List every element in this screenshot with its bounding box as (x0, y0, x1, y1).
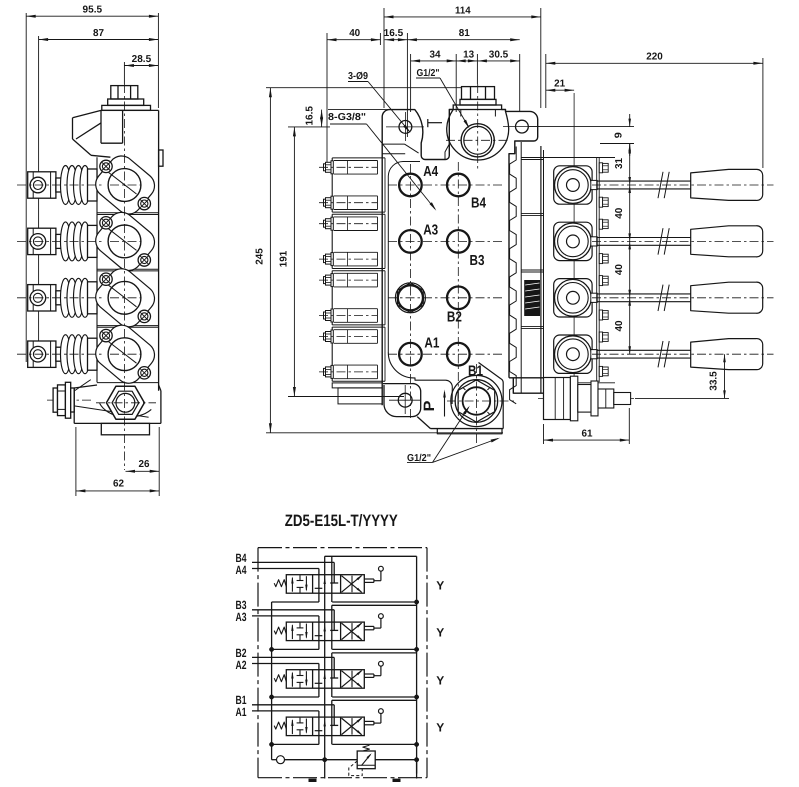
junction dot return module 2 (269, 695, 273, 699)
lever 4 centerline (592, 184, 774, 186)
section 3 stem (56, 234, 63, 248)
cell arrows module 2 (291, 673, 293, 687)
section 1 port flange (90, 320, 159, 389)
lever 3 break marks (658, 228, 663, 254)
valve module 3 body (286, 622, 364, 641)
svg-text:33.5: 33.5 (709, 371, 720, 391)
port A1 (399, 343, 422, 366)
wire loop module 2 (331, 653, 333, 697)
svg-text:40: 40 (614, 320, 625, 331)
lever 1 pivot housing (554, 335, 592, 373)
spool bore (334, 308, 378, 310)
svg-text:ZD5-E15L-T/YYYY: ZD5-E15L-T/YYYY (285, 512, 398, 530)
spring module 2 (274, 675, 286, 682)
check valve (272, 759, 277, 761)
wire loop module 4 (331, 556, 333, 602)
valve module 1 body (286, 717, 364, 736)
section 1 cap plate (88, 338, 98, 370)
section 3 port flange (90, 207, 159, 276)
main body outline (front view) (382, 110, 543, 406)
svg-text:A4: A4 (236, 563, 247, 577)
svg-text:21: 21 (554, 79, 565, 90)
lever 2 rod (591, 293, 597, 302)
port B2 (447, 287, 470, 310)
svg-text:A1: A1 (424, 335, 439, 351)
spool centerline (319, 166, 377, 168)
junction dot P at check line (323, 758, 327, 762)
valve body outline (left view) (101, 109, 159, 111)
svg-text:26: 26 (139, 459, 150, 470)
lever 3 pivot housing (554, 222, 592, 260)
inlet fitting (left view bottom left) (47, 399, 91, 401)
dimension 62 (left view) (75, 427, 77, 496)
bottom-left mounting ear (383, 384, 421, 417)
section 4 port circle (108, 169, 141, 202)
spool bore (334, 216, 378, 218)
front view of valve (254, 5, 773, 464)
outlet fitting (bottom right) (538, 397, 634, 399)
spool cap bolt (row 1) (331, 365, 333, 378)
section 3 centerline (17, 240, 102, 242)
spool centerline (319, 371, 377, 373)
section 1 clevis (28, 341, 56, 367)
detent X cell module 3 (342, 623, 362, 640)
P boss shoulder (479, 363, 504, 429)
lever 3 rod (591, 237, 597, 246)
spool cap bolt (row 2) (331, 309, 333, 322)
return line (left) (271, 602, 273, 760)
junction dot module 1 (414, 742, 418, 746)
spool bore (334, 364, 378, 366)
lever actuator module 2 (364, 673, 374, 675)
svg-text:A2: A2 (236, 658, 247, 672)
svg-text:B1: B1 (468, 364, 483, 380)
junction dot module 4 (414, 600, 418, 604)
bottom end cap of stack (332, 383, 382, 388)
spool cap bolt (row 4) (331, 161, 333, 174)
svg-text:30.5: 30.5 (489, 49, 509, 60)
junction dot relief-tank (414, 758, 418, 762)
section 2 port circle (108, 281, 141, 314)
dimension 34 (410, 54, 412, 112)
relief valve cap (front view) (462, 87, 495, 100)
junction dot module 2 (414, 695, 418, 699)
junction dot module 3 (414, 647, 418, 651)
lever 1 break marks (658, 341, 663, 367)
svg-text:40: 40 (614, 207, 625, 218)
spool centerline (319, 223, 377, 225)
lever 4 break marks (658, 172, 663, 198)
dimension 61 (543, 424, 545, 444)
lever 1 handle grip (691, 339, 763, 370)
svg-text:13: 13 (463, 49, 474, 60)
P port (bottom boss) (451, 375, 502, 426)
port B1 (447, 343, 470, 366)
bottom edge and step (front view) (431, 428, 504, 430)
spool cap bolt (row 1) (331, 330, 333, 343)
spool bore (334, 251, 378, 253)
cell arrows module 1 (291, 720, 293, 734)
dimension 87 (38, 36, 40, 362)
section joints (left view) (97, 212, 159, 214)
svg-text:B2: B2 (447, 309, 462, 325)
svg-text:Y: Y (436, 721, 444, 735)
dimension 16.5 (vertical) (328, 109, 391, 111)
svg-text:40: 40 (614, 264, 625, 275)
lever 2 break marks (658, 285, 663, 311)
dimension 13 (476, 54, 478, 84)
section 2 bellows boot (61, 278, 71, 317)
spool cap bolt (row 3) (331, 217, 333, 230)
svg-text:A4: A4 (423, 164, 438, 180)
lever 1 centerline (592, 353, 774, 355)
P supply line (324, 556, 326, 759)
section 3 flange bolts (100, 217, 112, 229)
cell arrows module 3 (291, 625, 293, 639)
section 2 clevis (28, 285, 56, 311)
detent X cell module 2 (342, 671, 362, 688)
svg-text:40: 40 (349, 28, 360, 39)
svg-text:31: 31 (614, 158, 625, 169)
section 4 clevis (28, 172, 56, 198)
section plate 3 (331, 214, 333, 268)
section 4 centerline (17, 184, 102, 186)
detent X cell module 4 (342, 576, 362, 593)
port A3 (399, 230, 422, 253)
svg-text:16.5: 16.5 (384, 28, 404, 39)
bottom block (left view) (73, 388, 75, 423)
neutral cell marks module 3 (315, 635, 323, 637)
svg-text:87: 87 (93, 28, 104, 39)
lever 3 handle grip (691, 226, 763, 257)
section 1 bellows boot (61, 335, 71, 374)
section 2 flange bolts (100, 273, 112, 285)
lever 4 bracket bolts (599, 163, 602, 173)
svg-text:A1: A1 (236, 705, 247, 719)
section 3 port circle (108, 225, 141, 258)
lever 1 bracket bolts (599, 332, 602, 342)
bottom mounting hole (398, 393, 412, 407)
lever 2 centerline (592, 297, 774, 299)
spool centerline (319, 202, 377, 204)
section 2 cap plate (88, 282, 98, 314)
row 3 centerline (388, 240, 504, 242)
section 3 clevis (28, 228, 56, 254)
dimension 245 (left of front view) (266, 87, 462, 89)
valve module 2 body (286, 670, 364, 689)
inner face plate boundary (387, 176, 389, 352)
dimension 33.5 (635, 397, 729, 399)
svg-text:114: 114 (455, 5, 471, 16)
svg-text:81: 81 (459, 28, 470, 39)
lever 4 handle grip (691, 169, 763, 200)
top mounting hole right (516, 120, 529, 133)
tank line (416, 556, 418, 773)
row 4 centerline (388, 184, 504, 186)
lever pivot center vertical (573, 93, 575, 415)
section 4 cap plate (88, 169, 98, 201)
spring module 4 (274, 580, 286, 587)
neutral cell marks module 2 (315, 682, 323, 684)
G1/2 top port (461, 124, 494, 157)
bracket top/bottom plates (544, 157, 616, 159)
section 1 stem (56, 347, 63, 361)
spool centerline (319, 336, 377, 338)
lever 4 rod (591, 180, 597, 189)
svg-text:Y: Y (436, 673, 444, 687)
cell arrows module 4 (291, 578, 293, 592)
svg-text:P: P (421, 401, 438, 412)
section 4 bellows boot (61, 166, 71, 205)
port B4 (447, 174, 470, 197)
svg-text:61: 61 (582, 428, 593, 439)
svg-text:B3: B3 (470, 253, 485, 269)
spring module 3 (274, 627, 286, 634)
lever 2 bracket bolts (599, 276, 602, 286)
dimension 16.5 (top) (406, 33, 408, 137)
top mounting hole left (399, 121, 412, 134)
section 3 cap plate (88, 225, 98, 257)
wire loop module 1 (331, 700, 333, 744)
dimension 81 (407, 39, 519, 41)
relief valve cap (left view) (111, 86, 138, 99)
section 4 stem (56, 178, 63, 192)
carry-over hex plug (row 2, A column) (395, 283, 425, 313)
svg-text:B4: B4 (471, 196, 486, 212)
lever 3 bracket bolts (599, 219, 602, 229)
inner face corner arcs (388, 162, 403, 177)
port B3 (447, 230, 470, 253)
spool bore (334, 195, 378, 197)
relief valve (357, 751, 375, 769)
junction dot return module 3 (269, 647, 273, 651)
spool centerline (319, 279, 377, 281)
svg-text:245: 245 (254, 248, 265, 265)
svg-text:220: 220 (646, 52, 663, 63)
hydraulic circuit schematic (236, 512, 445, 782)
svg-text:Y: Y (436, 578, 444, 592)
section plate 4 (331, 158, 333, 212)
svg-text:62: 62 (113, 479, 124, 490)
column centerlines (409, 164, 411, 420)
dimension 191 (288, 126, 330, 128)
valve module 4 body (286, 575, 364, 594)
svg-text:28.5: 28.5 (132, 54, 152, 65)
dimension 21 (546, 89, 574, 91)
lever 4 pivot housing (554, 166, 592, 204)
port A4 (399, 174, 422, 197)
dimension 220 (545, 54, 547, 108)
centerline bottom plug (96, 402, 156, 404)
section 1 centerline (17, 353, 102, 355)
P and T exit stubs (324, 760, 326, 779)
dimension 114 (383, 8, 385, 108)
wire loop module 3 (331, 605, 333, 649)
dimension 30.5 (519, 54, 521, 112)
P flow arrow (444, 392, 446, 417)
junction dot return module 1 (269, 742, 273, 746)
section 1 port circle (108, 338, 141, 371)
T port marker (427, 119, 429, 127)
row 2 centerline (388, 297, 504, 299)
svg-text:A3: A3 (423, 223, 438, 239)
svg-text:3-Ø9: 3-Ø9 (348, 71, 368, 82)
lever actuator module 3 (364, 625, 374, 627)
section 2 centerline (17, 297, 102, 299)
lever 2 pivot housing (554, 279, 592, 317)
row 1 centerline (388, 353, 504, 355)
svg-text:191: 191 (278, 250, 289, 267)
envelope boundary (dash-dot) (258, 547, 427, 549)
spool centerline (319, 315, 377, 317)
spool cap bolt (row 3) (331, 253, 333, 266)
section 2 stem (56, 291, 63, 305)
section 1 flange bolts (100, 329, 112, 341)
left side view of valve assembly (17, 5, 163, 496)
bottom mounting foot (left view) (101, 423, 149, 434)
spool bore (334, 272, 378, 274)
section 3 bellows boot (61, 222, 71, 261)
side tab (left view right edge) (159, 150, 163, 166)
section 2 port flange (90, 263, 159, 332)
spool centerline (319, 258, 377, 260)
lever actuator module 4 (364, 578, 374, 580)
spool bore (334, 160, 378, 162)
relief boss outline (447, 110, 509, 161)
vertical dimension chain 9/31/40/40/40 (528, 126, 634, 128)
spring module 1 (274, 722, 286, 729)
svg-text:8-G3/8": 8-G3/8" (328, 112, 366, 123)
dimension 40 (top) (326, 33, 328, 163)
bracket rails (596, 158, 598, 383)
svg-text:9: 9 (613, 132, 624, 138)
spool cap bolt (row 2) (331, 274, 333, 287)
svg-text:95.5: 95.5 (83, 5, 103, 16)
section plate 2 (331, 271, 333, 325)
spool bore (334, 329, 378, 331)
svg-text:G1/2": G1/2" (417, 68, 440, 79)
lever 2 handle grip (691, 282, 763, 313)
section 4 port flange (90, 151, 159, 220)
bottom hex plug (left view) (106, 386, 144, 419)
section plate 1 (331, 327, 333, 381)
svg-text:16.5: 16.5 (305, 106, 316, 126)
lever 1 rod (591, 350, 597, 359)
detent X cell module 1 (342, 718, 362, 735)
svg-text:A3: A3 (236, 610, 247, 624)
neutral cell marks module 1 (315, 730, 323, 732)
section 4 flange bolts (100, 160, 112, 172)
right side section plates (520, 142, 522, 393)
right side stepped profile (510, 147, 517, 404)
svg-text:34: 34 (430, 49, 441, 60)
dimension 95.5 (25, 13, 27, 362)
neutral cell marks module 4 (315, 587, 323, 589)
dimension 28.5 (123, 62, 125, 84)
svg-text:Y: Y (436, 626, 444, 640)
spool cap bolt (row 4) (331, 196, 333, 209)
dimension 26 (left view) (158, 427, 160, 496)
side marker block (black) (524, 280, 540, 316)
lever 3 centerline (592, 240, 774, 242)
relief to tank line (375, 759, 416, 761)
lever actuator module 1 (364, 720, 374, 722)
